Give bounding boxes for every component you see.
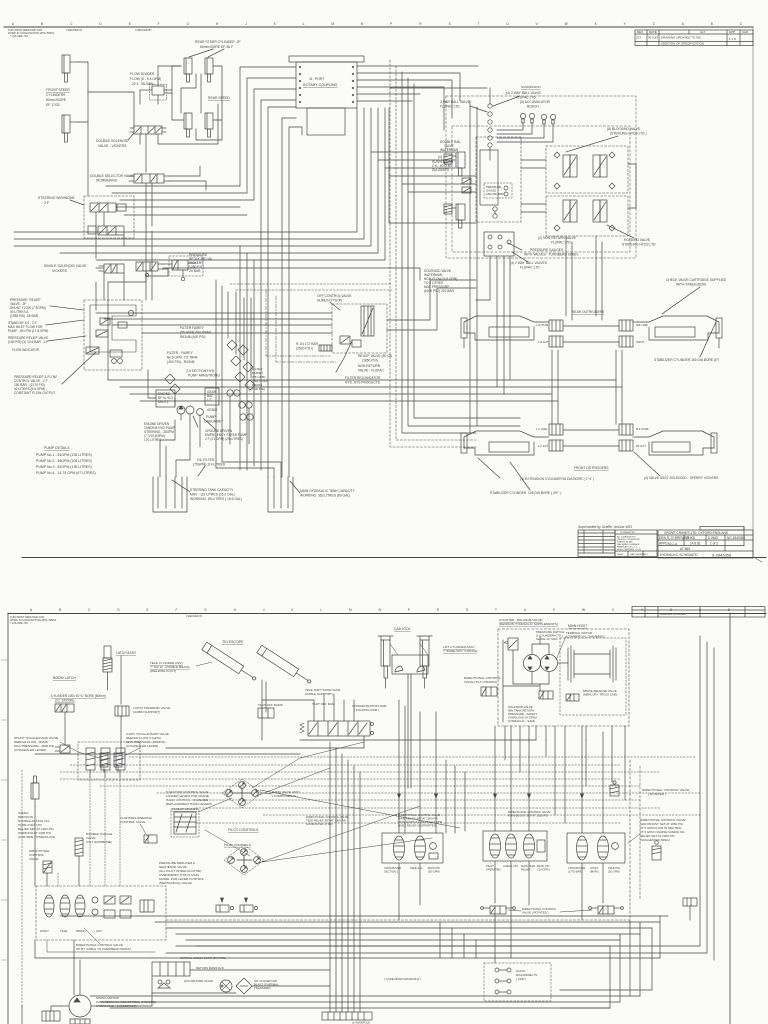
svg-text:MAIN HYDRAULIC TANK CAPACITY: MAIN HYDRAULIC TANK CAPACITY [300,489,356,493]
svg-text:MAIN PSI: MAIN PSI [428,866,440,870]
rear speed label [208,96,230,100]
svg-text:2 F: 2 F [44,201,49,205]
filter fairey label lower [167,351,199,364]
svg-text:CHKD: CHKD [686,536,696,540]
svg-text:WORKING 363 LITRES (80 GAL): WORKING 363 LITRES (80 GAL) [300,494,350,498]
hand valve assy label [272,790,300,798]
oil cooler label [254,979,279,990]
svg-text:(DENISON HYDRAULIC SUPPLEMENTS: (DENISON HYDRAULIC SUPPLEMENTS) [499,622,558,626]
counter balance label [499,618,558,626]
main dashed enclosure suspension left edge [390,60,476,447]
svg-text:CHECKED IN: CHECKED IN [186,614,202,618]
sheet1 title note top-left [8,28,152,38]
svg-text:CHECK VALVE CARTRIDGE SUPPLIED: CHECK VALVE CARTRIDGE SUPPLIED [666,278,727,282]
leader gauges [508,243,522,250]
brake pressure label [583,689,617,697]
valve group 3 [567,833,625,863]
boom telescope valve [55,745,70,753]
boom latch label [53,676,76,680]
non return valve label [538,236,577,245]
svg-text:VALVE: VALVE [29,857,39,861]
sheet2 title note top-left [10,614,202,625]
wire vertical drops to valve groups [398,700,400,833]
svg-text:14.8.81: 14.8.81 [690,542,701,546]
svg-text:1 1 8: 1 1 8 [729,37,736,41]
svg-text:DATE: DATE [649,30,657,34]
RH rear valve stack [619,320,648,347]
svg-text:FLUPAC LTD.: FLUPAC LTD. [551,241,572,245]
wire group outputs down [398,863,400,920]
leader oil filter [198,466,205,476]
sheet1 title block bottom-right [578,525,762,562]
svg-text:L.F LINE: L.F LINE [536,427,547,431]
svg-text:WORKING 89 LITRES ( 19.6 GAL): WORKING 89 LITRES ( 19.6 GAL) [190,497,242,501]
svg-text:VALVE (TILT CHASSIS): VALVE (TILT CHASSIS) [464,680,497,684]
svg-text:1 of 2: 1 of 2 [710,542,718,546]
svg-text:PUMP No.1 - 81GPM (135 LITRES): PUMP No.1 - 81GPM (135 LITRES) [36,453,92,457]
svg-text:( 20 GPM ): ( 20 GPM ) [537,868,550,872]
svg-text:HOLDING VALVE: HOLDING VALVE [624,238,651,242]
svg-text:TRANSFER): TRANSFER) [254,986,271,990]
single solenoid valve vickers [99,264,124,273]
wire winch internals [532,672,549,684]
rotary coupling lower extension [307,108,345,135]
vertical bundle center [329,742,331,1012]
svg-text:BOOM LATCH: BOOM LATCH [53,676,76,680]
svg-text:WITH STABILIZERS: WITH STABILIZERS [676,283,707,287]
wire selector valve runs [169,166,200,176]
cushion control label [120,816,153,824]
wire pump to relief long runs [96,312,332,314]
svg-text:2 F (21 GPM) (29 LITRES): 2 F (21 GPM) (29 LITRES) [205,437,243,441]
suspension cyl LH upper [452,152,465,176]
tele support block [258,708,274,718]
drop arrows [398,794,401,798]
svg-text:PUMP DETAILS: PUMP DETAILS [44,446,70,450]
svg-text:OPERATED: OPERATED [486,868,501,872]
double selector valve wormdrive [129,174,169,183]
return filter component right [652,841,661,860]
valve group 2 [483,831,547,861]
leader cushion [140,824,146,834]
LH front outrigger beam [461,431,546,455]
nested bends to bottom manifold [439,922,441,958]
cooler loop wires [152,957,660,959]
cab lock label [394,627,411,631]
svg-text:TELESCOPE: TELESCOPE [222,640,244,644]
bottom rotated valve B [589,906,624,914]
toggle valve label right [126,732,169,748]
svg-text:DIA GENTS: DIA GENTS [432,168,449,172]
steering tank capacity label [190,488,242,501]
svg-text:FLOW (5 - 9.4 GPM): FLOW (5 - 9.4 GPM) [130,77,161,81]
joystick cluster upper [222,779,262,808]
svg-text:(400 PSI): (400 PSI) [252,387,265,391]
rear steer cylinder LH upper [184,58,192,82]
svg-text:STABILIZER CYLINDER 105 DIA B: STABILIZER CYLINDER 105 DIA BORE ( 4½" ) [490,491,561,495]
svg-text:NC-2845356: NC-2845356 [727,536,745,540]
svg-text:(1770 BAR): (1770 BAR) [568,870,582,874]
LH front valve stack [536,424,563,451]
stabilizer cylinder 105 label [490,491,561,495]
svg-text:(STERLING HYDS LTD.): (STERLING HYDS LTD.) [610,132,647,136]
bottom ball valve manifold [484,232,514,256]
gauges in manifold [493,207,497,218]
svg-text:MATL/ASSEMBLY: MATL/ASSEMBLY [630,553,648,556]
wire suspension bottom drops [476,256,490,300]
blocking valve cluster lower [546,196,628,236]
svg-text:PUMP No.4 - 14.75 GPM (67 LITR: PUMP No.4 - 14.75 GPM (67 LITRES) [36,471,96,475]
svg-text:STERLING HYDS LTD: STERLING HYDS LTD [622,243,656,247]
wire solenoid bus runs [123,273,125,300]
non return valve label2 [184,979,213,983]
case drain label [384,977,421,981]
svg-text:FILTER REJUNICATOR: FILTER REJUNICATOR [345,376,381,380]
svg-text:MAIN HOIST: MAIN HOIST [568,624,587,628]
left small cylinder [31,776,39,806]
svg-text:(4) 2 WAY BALL VALVE: (4) 2 WAY BALL VALVE [506,91,541,95]
pump circle aux [197,409,204,421]
svg-text:STABILIZER CYLINDER 150 DIA BO: STABILIZER CYLINDER 150 DIA BORE (6") [654,358,719,362]
leader hand valve [263,793,272,794]
waterman rail valves [444,154,452,164]
concentration ram label [352,704,387,712]
wire cluster to outrigger risers [565,236,567,316]
tank comb under swing motor [70,1019,90,1024]
steering tank [153,477,187,512]
return manifold block [152,962,190,976]
svg-text:HOLE CENTRES +-0.25: HOLE CENTRES +-0.25 [617,549,642,551]
svg-text:20 BAR: 20 BAR [189,269,201,273]
pump details list [36,446,96,475]
svg-text:RETURN MANIFOLD: RETURN MANIFOLD [196,966,224,970]
svg-text:CHK: CHK [742,30,748,34]
front steer cylinder lower [62,115,78,142]
tilt valve [481,687,497,696]
flow divider label [130,72,161,86]
steering wishbone label [38,196,75,205]
latch spool valve [55,704,74,712]
svg-text:WATERMAN: WATERMAN [440,148,459,152]
second solenoid valve [136,262,163,277]
rear steer cylinder RH upper [205,58,213,82]
svg-text:(CABIN SUPPORT): (CABIN SUPPORT) [133,710,160,714]
svg-text:(SUGGESTED SPEC): (SUGGESTED SPEC) [640,838,670,842]
suspension cyl LH lower [452,204,465,228]
latch assy label [116,651,137,655]
svg-text:(4): (4) [438,155,442,159]
svg-text:(4) 2 WAY BALL VALVES: (4) 2 WAY BALL VALVES [510,261,548,265]
svg-text:(5000 PS.I) 201 BAR: (5000 PS.I) 201 BAR [424,289,454,293]
svg-text:DOUBLE SELECTOR VALVE: DOUBLE SELECTOR VALVE [90,174,135,178]
svg-text:1:7: 1:7 [207,398,212,402]
accumulator label [520,100,551,109]
pilot controls label [228,828,259,832]
svg-text:(WELDING IN KIT): (WELDING IN KIT) [150,669,176,673]
solenoid pair A [100,753,108,772]
svg-text:(MAIN): (MAIN) [590,870,599,874]
blocking valve cluster upper [546,146,628,193]
extension cylinder label [520,477,594,481]
wire valve bank risers [262,700,314,721]
svg-text:(4) EXTENSION CYLINDER 50 DIA: (4) EXTENSION CYLINDER 50 DIA BORE ( 2 ½… [520,477,594,481]
relief valve 150 label [358,354,393,363]
latch cylinder [103,646,112,680]
svg-text:(CABLE SUPPORT): (CABLE SUPPORT) [305,692,333,696]
svg-text:HYD. SYS PRODUCTS: HYD. SYS PRODUCTS [345,381,381,385]
svg-text:(4) VALVE ASSY SOLENOID - SPER: (4) VALVE ASSY SOLENOID - SPERRY VICKERS [644,476,719,480]
wire winch drop bus [262,712,536,740]
wire left bottom long runs [98,993,152,1006]
wire latch to valve [107,680,109,690]
svg-text:UP BY CABLE TO OVERHEAD WINCH: UP BY CABLE TO OVERHEAD WINCH [76,947,131,951]
2-3 section pump label [186,369,220,378]
svg-text:PUMP No.3 - 81GPM (135 LITRES): PUMP No.3 - 81GPM (135 LITRES) [36,465,92,469]
svg-text:FLOW INDICATOR: FLOW INDICATOR [12,348,40,352]
svg-text:80mm BORE: 80mm BORE [46,98,67,102]
lower return rows [90,995,640,997]
blocking valve label [607,127,647,136]
leader off control block [330,302,340,310]
return bus bundle bottom [60,915,668,917]
svg-text:FRONT STEER: FRONT STEER [46,88,70,92]
bottom manifold comb [322,1012,372,1020]
rear steer cylinder group label [195,40,241,49]
svg-text:(MERCURY TRUCK LINE): (MERCURY TRUCK LINE) [583,693,617,697]
svg-text:FLUPAC LTD.: FLUPAC LTD. [440,105,461,109]
svg-text:6-2845: 6-2845 [708,536,718,540]
off control valve label [317,294,352,303]
svg-text:L.R STAB: L.R STAB [536,323,548,327]
svg-text:By 5 GPM TO TANK: By 5 GPM TO TANK [167,356,199,360]
pressure reducing valve label [189,253,212,273]
leaders rotated [508,910,521,911]
svg-text:TAUT OFF RAMS: TAUT OFF RAMS [258,703,283,707]
wire verticals right bundle with elbows left [14,108,357,232]
directional control valve tilt label [464,676,501,684]
manifold label [352,1021,370,1024]
latch solenoid box [115,706,129,716]
pilot bus horizontal dashed bundle [129,756,696,758]
svg-text:(COMMERCIAL CHAMBERS): (COMMERCIAL CHAMBERS) [566,635,605,639]
double rail valve waterman label [440,140,461,152]
svg-text:HYDRAULIC - SAFE: HYDRAULIC - SAFE [508,719,535,723]
rear steer cylinder RH lower [205,113,213,137]
svg-text:VALVE ( ROTATED ): VALVE ( ROTATED ) [522,911,549,915]
3 way ball valve label [440,100,471,109]
svg-text:RELIEF VALVE (50 GA: RELIEF VALVE (50 GA [358,354,393,358]
wire filter verticals [215,280,217,430]
svg-text:REAR STEER CYLINDER 2F: REAR STEER CYLINDER 2F [195,40,241,44]
leader check valve cartridge [662,287,700,314]
svg-text:(CONCEALED LEVER): (CONCEALED LEVER) [126,744,158,748]
wire rear outrigger cross links [563,325,619,327]
double solenoid valve label [96,139,129,148]
svg-text:DOUBLE SOLENOID: DOUBLE SOLENOID [96,139,129,143]
svg-text:PUMP ARMSTRONG: PUMP ARMSTRONG [188,374,220,378]
leader steering tank [172,480,190,492]
svg-text:(1850 PSI): (1850 PSI) [362,359,378,363]
leader terminal motor [556,636,566,660]
latch cylinder spec label [51,694,106,703]
svg-text:TELE PSI: TELE PSI [608,866,620,870]
2 way ball valve label [506,91,541,100]
svg-text:( SKID ): ( SKID ) [516,977,526,981]
svg-text:TELE: TELE [60,929,67,933]
dashed horizontals center [230,283,392,285]
sheet2 right border [729,613,731,1024]
svg-text:CONTROL VALVE: CONTROL VALVE [120,820,145,824]
takeup spaces label [172,807,197,811]
pressure reducer label [159,861,205,885]
swing brake pump [42,1011,60,1021]
svg-text:ADDITION OF SPECIFICATION: ADDITION OF SPECIFICATION [661,42,704,46]
case drain component right [683,898,697,920]
wire front steer to valve [78,62,88,122]
holding valve label [622,238,656,247]
svg-text:DRAWING UPDATED TO INC: DRAWING UPDATED TO INC [661,36,702,40]
wire cab centre drop [408,674,411,788]
wire bundle right of coupling to suspension [357,65,478,67]
svg-text:ALT: ALT [700,30,705,34]
steering wishbone valve block (dashed) [84,196,134,238]
cushion valve [144,835,157,843]
leader toggle valves [60,742,100,758]
taut off rams label [258,703,283,707]
valve group 1 [382,833,443,863]
svg-text:* VOLUME 745: * VOLUME 745 [10,621,28,625]
five section control valve [171,809,199,837]
double toggle valve [75,838,83,856]
leader to steering valve [70,200,84,205]
ground driven pump label [205,429,247,441]
leader main tank [290,481,300,493]
svg-text:(75GPM) 114 LITRES: (75GPM) 114 LITRES [193,463,226,467]
svg-text:(20 GPM): (20 GPM) [608,870,620,874]
filter fairey right label [252,367,268,391]
wire left side risers [34,806,36,886]
double selector valve label [90,174,135,183]
svg-text:30.6.83: 30.6.83 [648,36,658,40]
svg-text:AIRLINE BRD: AIRLINE BRD [486,192,504,196]
suspension cyl label [432,155,454,172]
wire relief block to suspension [387,280,476,320]
wire swing motor links [51,1006,62,1011]
leader bank [84,928,100,944]
directional control winch label [76,943,131,951]
double toggle valve label [86,832,112,844]
svg-text:170 LITRES: 170 LITRES [144,438,161,442]
svg-text:NON-RETURN: NON-RETURN [358,364,381,368]
wire tank risers [159,440,161,477]
single solenoid valve label [44,264,87,273]
rear steer cylinder LH lower [184,113,192,137]
svg-text:CHECKED IN: CHECKED IN [66,28,82,32]
svg-text:(55 GPM) /50LITRES: (55 GPM) /50LITRES [180,331,212,335]
svg-text:REMS: REMS [617,554,624,556]
sheet2 column letter ticks [30,608,730,612]
svg-text:ROTARY COUPLING: ROTARY COUPLING [303,83,338,87]
pressure gauge airline box [484,183,512,198]
wire wishbone to bus [116,206,134,208]
svg-text:NON RETURN VALVE: NON RETURN VALVE [184,979,213,983]
rear outriggers label [572,310,605,314]
svg-text:TOLERANCES: TOLERANCES [620,531,635,534]
wire horizontal bundle mid page to outriggers [108,380,616,424]
svg-text:BOSCH: BOSCH [527,105,539,109]
winch motor circles [524,655,558,672]
svg-text:CAB LOCK: CAB LOCK [394,627,411,631]
svg-text:CYLINDERS: CYLINDERS [46,93,66,97]
wire solenoid valve drops [139,134,141,144]
2 way ball valves bottom label [510,261,548,270]
wire long horizontals steering to suspension manifold [134,206,240,208]
sheet1 column letter ticks [12,22,743,26]
normal check buss label [180,956,226,960]
svg-text:GROVE CRANES LTD. OXFORD ENGLA: GROVE CRANES LTD. OXFORD ENGLAND [664,531,729,535]
bank labels below [40,929,102,933]
six section valve bank [300,721,374,736]
wire front outrigger cross links [563,429,619,431]
wire pump suction/delivery [148,370,156,398]
directional control valve label left [29,849,50,861]
svg-text:REAR OUTRIGGERS: REAR OUTRIGGERS [572,310,605,314]
telescope cylinder RH [257,645,313,686]
svg-text:(150 PSI) (1) 10.5 BAR - 2 F: (150 PSI) (1) 10.5 BAR - 2 F [8,340,48,344]
RH rear outrigger beam [637,316,722,348]
svg-text:PRESSURE GAUGES: PRESSURE GAUGES [530,248,564,252]
dashed enclosure right second line [639,766,641,900]
engine driven pump label [144,422,175,442]
wire latch bus drop [64,712,66,745]
cab lift cylinder RH [417,636,432,678]
front outriggers label [574,466,609,470]
11 port rotary coupling [289,56,364,108]
quick disconnects cluster [484,963,551,1001]
LH rear valve stack [536,320,563,347]
winch hoist dashed enclosure [498,629,629,726]
svg-text:HOIST: HOIST [40,929,49,933]
svg-text:LH MANIFOLD: LH MANIFOLD [352,1021,370,1024]
brake valve [566,694,579,701]
svg-text:( ROTATED ): ( ROTATED ) [648,792,666,796]
directional control valve rotated label right [642,788,689,796]
svg-text:237: 237 [636,36,641,40]
wire center verticals to suspension [402,72,476,433]
svg-text:CONSTANT FLOW OUTPUT: CONSTANT FLOW OUTPUT [14,391,55,395]
small bottom valves center-left [216,905,234,912]
pressure reducing valve symbol [169,256,203,281]
leader boost [628,834,640,843]
svg-text:CROSSOVER: CROSSOVER [568,866,585,870]
svg-text:TAUT OFF RAM: TAUT OFF RAM [312,702,335,706]
svg-text:L.R EXT: L.R EXT [538,340,549,344]
tele drop arrows row [221,898,224,902]
control pressure solid bus [35,753,300,755]
wire suspension feed top [390,87,487,89]
latch solenoid label [133,706,170,714]
filter diamond A [165,374,175,384]
svg-text:(CAB SIDE HYDRAULICS): (CAB SIDE HYDRAULICS) [18,835,55,839]
svg-text:INPUT: INPUT [636,340,645,344]
accumulators [520,113,555,124]
svg-text:6-2845356: 6-2845356 [712,553,732,558]
right text block boost [640,818,686,842]
svg-text:VALVE - VICKERS: VALVE - VICKERS [98,144,127,148]
leader lines left labels [50,306,84,310]
rotated label between [522,907,557,915]
pilot line diagonals [252,742,364,788]
